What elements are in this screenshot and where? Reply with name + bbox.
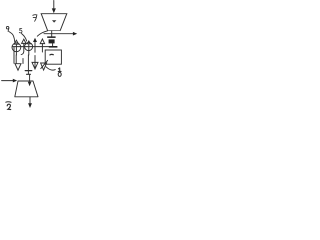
wire: top inlet arrow stem	[53, 1, 55, 10]
pump circle P2	[25, 43, 33, 51]
wire: nozzle A stem with hook	[21, 43, 24, 63]
label Fig mark glyph	[7, 104, 11, 109]
label 7 (hopper)	[33, 15, 37, 22]
rotary feeder top plate	[47, 36, 55, 38]
wire: feeder stem	[52, 43, 54, 46]
rotary feeder body	[49, 39, 55, 43]
wire: pipe into vat	[29, 75, 31, 82]
hose squiggle left	[9, 32, 15, 43]
wire: vat outlet stem	[29, 97, 31, 104]
nozzle C (up triangle on stick)	[40, 39, 44, 44]
spray nozzle F (down triangle)	[41, 63, 47, 70]
label 10 (rotated digit zero)	[58, 72, 61, 76]
wire: nozzle B stem	[34, 42, 36, 52]
leader curve to label 10	[46, 67, 55, 70]
wire: feed line into vat	[2, 80, 14, 82]
label 5 (second hose)	[19, 28, 22, 32]
funnel hopper (top trapezoid)	[41, 14, 67, 31]
flange bar on center pipe	[25, 70, 31, 72]
manifold pipe (horizontal)	[13, 46, 49, 48]
node: outlet arrowhead	[28, 103, 32, 108]
wire: outlet horizontal line	[44, 33, 74, 35]
wire: center drop pipe	[27, 55, 29, 70]
nozzle arrow above P2	[27, 41, 30, 44]
wire: P1 stem	[15, 44, 17, 55]
wire: nozzle C stem	[41, 44, 43, 52]
vat (bottom trapezoid)	[15, 81, 38, 97]
nozzle arrow above P1	[14, 40, 18, 44]
spray nozzle D (down triangle)	[15, 64, 21, 70]
node: mark inside mixer box	[50, 53, 53, 56]
nozzle B (solid up arrow on stick)	[33, 38, 37, 42]
wire: P2 stem	[28, 44, 30, 55]
node: feed arrowhead	[13, 79, 17, 83]
label Fig mark overbar	[6, 101, 11, 104]
wire: chute curve from hopper outlet	[37, 31, 47, 36]
nozzle A (up triangle on stick)	[22, 39, 26, 43]
mixer box	[45, 50, 61, 64]
wire: pipe into nozzle E	[34, 56, 36, 69]
spray nozzle E (down triangle)	[32, 62, 38, 69]
flange bar above mixer box	[49, 46, 58, 48]
label 10 (rotated digit one)	[58, 68, 61, 72]
wire: outlet drop	[51, 31, 53, 37]
wire: pipe through nozzle D	[15, 55, 17, 63]
lower tick on center pipe	[27, 71, 29, 74]
wire: hopper bottom edge	[48, 30, 61, 32]
label 9 (left hose)	[6, 26, 9, 29]
node: top inlet arrowhead	[52, 8, 56, 13]
valve diagonal at box corner	[41, 60, 48, 68]
node: level mark inside hopper	[52, 20, 56, 22]
node: arrowhead into vat	[28, 82, 32, 87]
wire: left downpipe	[13, 47, 15, 63]
hose squiggle second	[22, 34, 27, 42]
pump circle P1	[12, 43, 21, 52]
node: outlet arrowhead right	[73, 32, 77, 36]
